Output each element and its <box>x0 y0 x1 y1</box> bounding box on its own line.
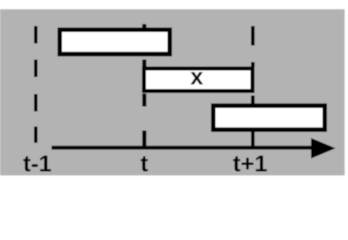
interval rectangle middle <box>144 69 253 92</box>
axis arrowhead <box>311 138 336 159</box>
svg-text:t: t <box>140 151 148 177</box>
interval rectangle top <box>60 30 170 54</box>
interval rectangle bottom <box>213 106 325 130</box>
svg-text:t+1: t+1 <box>233 151 268 177</box>
dashed line t-1 <box>34 26 38 143</box>
dashed line t+1 <box>251 26 255 146</box>
svg-text:x: x <box>190 64 203 90</box>
dashed line t <box>142 24 146 147</box>
gray figure background <box>0 9 345 175</box>
time axis line <box>52 146 316 150</box>
svg-text:t-1: t-1 <box>23 151 52 177</box>
